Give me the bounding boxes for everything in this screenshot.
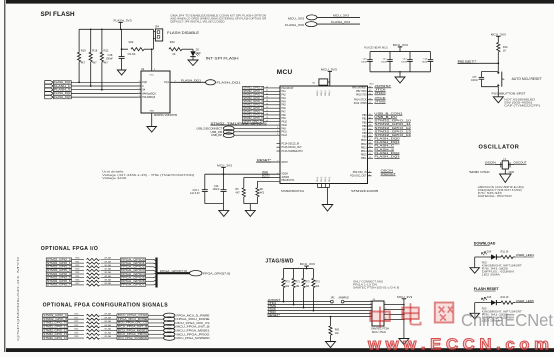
- input connector FLASH_DQ3: [45, 95, 72, 99]
- wires J3 right pins: [384, 303, 405, 320]
- off-page connector FLASH_DQ1: [206, 80, 242, 85]
- svg-text:M25P40-VMN6TPB: M25P40-VMN6TPB: [154, 114, 177, 117]
- off-page power connector MCU_3V3: [288, 14, 360, 21]
- note text (unit details): [102, 170, 194, 180]
- off-page connector USB_DP: [211, 133, 288, 138]
- svg-text:STM32_GPIO_12: STM32_GPIO_12: [43, 328, 67, 332]
- ground (boot network): [245, 210, 255, 216]
- svg-text:P/N: 941-1828: P/N: 941-1828: [482, 269, 509, 271]
- note text (oscillator): [478, 186, 524, 198]
- capacitor C15 1uF: [190, 174, 208, 203]
- resistor R20: [169, 40, 193, 56]
- jumper JP1 ARMPUD: [331, 297, 350, 304]
- watermark chinese character wang: [435, 303, 454, 323]
- connector J3 MCU JTAG: [370, 299, 389, 334]
- svg-text:MCU_3V3: MCU_3V3: [397, 295, 412, 299]
- svg-text:PB6: PB6: [362, 126, 367, 128]
- net label MCU_FPGA_INIT_B: [117, 325, 148, 329]
- svg-text:PA4: PA4: [282, 100, 287, 103]
- net label STM32_GPIO_8 (cfg row): [43, 317, 68, 321]
- svg-text:VSS_3: VSS_3: [325, 177, 327, 182]
- svg-text:RED: RED: [482, 263, 487, 265]
- wire bypass top rail: [370, 51, 431, 53]
- MCU right pin PB2 /TDO net JTDI: [356, 88, 386, 94]
- svg-text:FPGA_GPIO0: FPGA_GPIO0: [121, 257, 145, 261]
- svg-text:FPGA_GPIO5: FPGA_GPIO5: [121, 275, 145, 279]
- svg-text:1: 1: [370, 300, 371, 302]
- resistor R71 10k: [292, 269, 301, 306]
- svg-text:3: 3: [370, 303, 371, 305]
- svg-text:STM32_GPIO_3: STM32_GPIO_3: [47, 268, 71, 272]
- MCU right pin PA15 /TDI net JTDO: [356, 91, 387, 97]
- svg-text:PA13 /JTMS: PA13 /JTMS: [354, 102, 367, 105]
- svg-text:LED 20MA: LED 20MA: [482, 274, 501, 277]
- svg-text:PB2-BOOT1: PB2-BOOT1: [282, 180, 296, 182]
- net label FPGA_MCU_DONE: [117, 317, 148, 321]
- svg-text:VSS_2: VSS_2: [321, 177, 323, 182]
- input connector FLASH_DQ2: [45, 91, 72, 95]
- wire + ground (FLASH RESET): [474, 303, 476, 314]
- wire: R22 branch: [121, 48, 128, 50]
- svg-text:VDD_2: VDD_2: [321, 90, 323, 96]
- net label OSCIN (crystal): [485, 161, 496, 165]
- svg-text:PA10: PA10: [282, 121, 288, 124]
- resistor R23 0R NA: [68, 324, 117, 328]
- net label RESET* (button): [458, 60, 500, 65]
- net label STM32_GPIO_7 (fpga row): [46, 283, 71, 287]
- net label STM32_GPIO_3 (fpga row): [46, 268, 71, 272]
- wire BOOT0: [244, 175, 280, 178]
- wire FLASH_DQ3 to U2 pin: [71, 96, 138, 98]
- MCU right pin PB14 net FLASH_S: [361, 147, 394, 153]
- svg-text:OSCOUT: OSCOUT: [514, 161, 527, 165]
- label INT SPI FLASH: [206, 56, 239, 61]
- svg-text:FPGA_MCU_D_PWRE: FPGA_MCU_D_PWRE: [177, 313, 210, 317]
- wire cfg row 1: [148, 318, 164, 320]
- svg-text:PB2 /TDO: PB2 /TDO: [356, 91, 367, 93]
- svg-text:MCU_FPGA_CFG0: MCU_FPGA_CFG0: [118, 313, 148, 317]
- net label FPGA_GPIO1: [120, 261, 145, 265]
- wire U2 VCC to jumper node: [151, 48, 153, 71]
- svg-text:R19: R19: [81, 48, 86, 52]
- wire FLASH_C to U2 pin: [71, 85, 138, 87]
- svg-text:Voltage 4440: Voltage 4440: [102, 177, 127, 180]
- net label STM32_GPIO_0: [242, 86, 293, 90]
- svg-text:JTDO: JTDO: [374, 91, 386, 95]
- off-page connector MCU_FPGA_SUSPEND: [164, 336, 210, 341]
- svg-text:PB5: PB5: [362, 122, 367, 124]
- svg-text:INT SPI FLASH: INT SPI FLASH: [206, 56, 239, 61]
- svg-text:100nF: 100nF: [213, 188, 220, 191]
- resistor R11: [496, 250, 516, 258]
- net label STM32_GPIO_14 (cfg row): [43, 336, 68, 340]
- net label STM32_GPIO_6: [242, 106, 286, 110]
- svg-text:FPGA_GPIO7: FPGA_GPIO7: [121, 283, 145, 287]
- svg-text:PB0: PB0: [362, 115, 367, 117]
- off-page connector MCU_FPGA_CRC_CS: [164, 321, 210, 326]
- resistor R35 0R NA: [72, 275, 121, 279]
- svg-text:SMD OSC: SMD OSC: [469, 170, 491, 174]
- label PLACE NEAR MCU: [364, 45, 388, 49]
- svg-text:100nF: 100nF: [381, 61, 388, 63]
- svg-text:MCU_FPGA_M0SE1: MCU_FPGA_M0SE1: [118, 328, 148, 332]
- net label STM32_GPIO_5: [242, 103, 286, 107]
- MCU VDD pin texts: [317, 90, 331, 96]
- power flag MCU_3V3 (VDDA filter): [217, 163, 232, 174]
- note text (FLASH RESET): [482, 308, 523, 322]
- svg-text:PA2: PA2: [282, 94, 287, 97]
- capacitor C5 100nF (reset): [471, 72, 498, 87]
- svg-text:MCU_FPGA_SUSPEND: MCU_FPGA_SUSPEND: [118, 336, 147, 340]
- svg-text:STM32_GPIO_14: STM32_GPIO_14: [43, 336, 67, 340]
- resistor R5 (BOOT pulldown): [236, 178, 246, 204]
- wire fpga row 0 to bus: [146, 260, 157, 261]
- capacitor C18: [106, 29, 125, 70]
- svg-text:NOT ASSEMBLED: NOT ASSEMBLED: [504, 99, 536, 102]
- svg-text:PA8: PA8: [282, 114, 287, 117]
- svg-text:PA6: PA6: [282, 107, 287, 110]
- note text (JTAG): [353, 281, 400, 289]
- off-page connector MCU_FPGA_M0SE1: [164, 328, 211, 333]
- off-page connector FPGA_MCU_DONE: [164, 317, 210, 322]
- svg-text:STM32_GPIO_5: STM32_GPIO_5: [47, 275, 71, 279]
- resistor R70 10k: [282, 269, 291, 303]
- svg-text:P/N: 545-945: P/N: 545-945: [478, 193, 503, 195]
- svg-text:DOWNLOAD: DOWNLOAD: [474, 241, 496, 245]
- svg-text:FLASH_DQ3: FLASH_DQ3: [54, 95, 71, 99]
- svg-text:PA12: PA12: [282, 134, 288, 137]
- svg-text:R70: R70: [285, 282, 290, 284]
- off-page power connector FLASH_3V3: [285, 20, 360, 27]
- section title FLASH RESET: [474, 287, 500, 291]
- svg-text:FLASH_DQ1: FLASH_DQ1: [217, 81, 242, 85]
- resistor R36 0R NA: [72, 278, 121, 282]
- svg-text:SAMTEC FTSH-105-01-L-D-K B: SAMTEC FTSH-105-01-L-D-K B: [353, 286, 400, 289]
- svg-text:R20: R20: [170, 40, 175, 44]
- net label RESET* (JTAG bus): [268, 313, 282, 317]
- wire reset node down: [497, 63, 499, 71]
- svg-text:SPI FLASH: SPI FLASH: [41, 11, 76, 18]
- net label STM32_GPIO_7: [242, 109, 286, 113]
- MCU right pin PB13 net FLASH_C: [361, 144, 394, 150]
- MCU analog/boot pins: [277, 173, 295, 182]
- svg-text:PB11: PB11: [361, 158, 367, 160]
- ground (MCU VSS): [322, 205, 333, 212]
- wire JNTRST: [268, 301, 373, 303]
- svg-text:SW (505-4056): SW (505-4056): [504, 103, 532, 105]
- capacitor C16 100nF: [213, 174, 227, 203]
- resistor R12: [496, 296, 516, 304]
- svg-text:USER_LED5: USER_LED5: [516, 299, 534, 303]
- svg-text:MCU_3V3: MCU_3V3: [393, 43, 408, 47]
- svg-text:FLASH_DQ3: FLASH_DQ3: [374, 154, 400, 158]
- net label FPGA_GPIO3: [120, 268, 145, 272]
- watermark ChinaECNet: [461, 310, 553, 330]
- MCU pin PC13-TAMPER-RTC: [277, 150, 304, 153]
- section title OPTIONAL FPGA I/O: [41, 246, 98, 252]
- section title OPTIONAL FPGA CONFIGURATION SIGNALS: [43, 303, 169, 309]
- svg-text:R10: R10: [503, 46, 508, 49]
- MCU pin PC14-OSC32_IN: [277, 143, 300, 145]
- svg-text:R12 1K: R12 1K: [501, 296, 509, 299]
- wire FLASH_S to U2 pin: [71, 89, 138, 91]
- svg-text:MCU: MCU: [277, 69, 293, 76]
- svg-text:100nF: 100nF: [361, 61, 368, 63]
- wire fpga row 6 to bus: [146, 280, 157, 281]
- svg-text:VSS_4: VSS_4: [329, 177, 331, 182]
- resistor R10 10K: [497, 42, 508, 63]
- svg-text:DQ0: DQ0: [142, 82, 147, 84]
- net label JTMS (JTAG bus): [268, 304, 277, 308]
- svg-text:AUTO MCU RESET: AUTO MCU RESET: [512, 77, 542, 81]
- svg-text:W#/Vpp/DQ2: W#/Vpp/DQ2: [142, 93, 156, 95]
- svg-text:MCU_3V3: MCU_3V3: [217, 163, 232, 167]
- wire U2 VSS down: [151, 113, 153, 127]
- wire fpga row 3 to bus: [146, 270, 157, 271]
- wire cfg row 5: [148, 333, 164, 335]
- note text (DOWNLOAD): [482, 263, 523, 277]
- svg-text:100nF: 100nF: [401, 61, 408, 63]
- label SMD OSC: [469, 170, 514, 174]
- svg-text:MCU_FPGA_PROG: MCU_FPGA_PROG: [118, 332, 147, 336]
- input connector FLASH_S: [45, 88, 72, 92]
- svg-text:JTAG/SWD: JTAG/SWD: [265, 258, 294, 264]
- LED D14: [475, 250, 501, 259]
- wire cfg row 0: [148, 314, 164, 316]
- svg-text:STM32_TIM1/PWM_GPIO_9: STM32_TIM1/PWM_GPIO_9: [211, 121, 268, 125]
- svg-text:MCU_FPGA_CRC_CS: MCU_FPGA_CRC_CS: [177, 321, 210, 325]
- wire RESET*: [268, 316, 373, 318]
- net label STM32_GPIO_11 (cfg row): [43, 325, 68, 329]
- wire fpga row 7 to bus: [146, 284, 157, 285]
- svg-text:STM32F/BOOT011: STM32F/BOOT011: [281, 189, 304, 193]
- net label STM32_GPIO_3: [242, 96, 286, 100]
- wire + ground (DOWNLOAD): [474, 257, 476, 268]
- wire JTCK: [268, 310, 373, 312]
- resistor R72 10k: [302, 269, 311, 309]
- svg-text:Voltage (447-4456-1-45) - THE: Voltage (447-4456-1-45) - THE (TIAETIONA…: [102, 174, 194, 177]
- svg-text:OSCOUT: OSCOUT: [381, 172, 396, 176]
- svg-text:D14: D14: [487, 250, 492, 253]
- resistor R21 0R NA: [68, 316, 117, 320]
- svg-text:PC15-OSC32_OUT: PC15-OSC32_OUT: [282, 147, 303, 149]
- svg-text:R11 1K: R11 1K: [501, 250, 509, 253]
- MCU right pin PB7 net STM32_GPIO_12: [362, 126, 411, 132]
- svg-text:OSCILLATOR: OSCILLATOR: [479, 145, 520, 151]
- MCU right pin PD1-OSC_OUT net OSCOUT: [350, 172, 396, 178]
- net label STM32_GPIO_12 (cfg row): [43, 328, 68, 332]
- svg-text:STM32_GPIO_8: STM32_GPIO_8: [43, 317, 67, 321]
- svg-text:FPGA_MCU_DONE: FPGA_MCU_DONE: [177, 317, 210, 321]
- svg-text:ONLY CONNECT JWS: ONLY CONNECT JWS: [353, 281, 384, 283]
- svg-text:GND: GND: [509, 171, 515, 174]
- svg-text:VDDA: VDDA: [282, 173, 289, 176]
- svg-text:KINGBRIGHT, WP7104SRT: KINGBRIGHT, WP7104SRT: [482, 266, 523, 268]
- svg-text:5: 5: [370, 306, 371, 308]
- svg-text:JP4: JP4: [155, 26, 160, 29]
- wire JTDI: [268, 304, 373, 306]
- svg-text:CAP (TYME22CFP): CAP (TYME22CFP): [504, 105, 540, 108]
- svg-text:FLASH_3V3: FLASH_3V3: [331, 20, 350, 24]
- ground (R60): [326, 342, 336, 348]
- svg-text:PUSHBUTTON-SPST: PUSHBUTTON-SPST: [492, 91, 526, 95]
- resistor R30 0R NA: [72, 257, 121, 261]
- resistor R6b (pulldown): [256, 181, 280, 203]
- net label OSCOUT (crystal): [514, 161, 527, 165]
- LED D2 (INT SPI FLASH): [190, 49, 200, 60]
- wire + ground (boot resistors): [244, 204, 258, 211]
- svg-text:USER_LED4: USER_LED4: [516, 253, 534, 257]
- off-page connector MCU_FPGA_INIT_B: [164, 324, 210, 329]
- svg-text:MCU_FPGA_INIT_B: MCU_FPGA_INIT_B: [118, 325, 148, 329]
- svg-text:PA15 /TDI: PA15 /TDI: [356, 94, 367, 97]
- resistor R26 0R NA: [68, 335, 117, 339]
- svg-text:PB1: PB1: [362, 119, 367, 121]
- svg-text:PC14-OSC32_IN: PC14-OSC32_IN: [282, 143, 300, 145]
- svg-text:MCU_3V3: MCU_3V3: [333, 14, 349, 18]
- net label FPGA_GPIO4: [120, 272, 145, 276]
- svg-text:PA3: PA3: [282, 97, 287, 100]
- wire + ground (bypass bank): [399, 71, 401, 77]
- svg-text:FLASH_DQ1: FLASH_DQ1: [181, 79, 202, 83]
- svg-text:STM32_GPIO_6: STM32_GPIO_6: [47, 279, 71, 283]
- net label JTDI (JTAG bus): [268, 301, 277, 305]
- MCU right pin PA14 /JTCK net JTCK: [354, 96, 386, 102]
- capacitor C12 100nF (bypass): [401, 52, 413, 72]
- net label STM32_GPIO_9: [242, 116, 286, 120]
- wire FLASH_DQ2 to U2 pin: [71, 92, 138, 94]
- svg-text:100nF: 100nF: [471, 79, 478, 82]
- MCU right pin PB8 net STM32_GPIO_13: [362, 129, 411, 135]
- off-page connector MCU_FPGA_PROG: [164, 332, 210, 337]
- svg-text:STM32_GPIO_2: STM32_GPIO_2: [47, 265, 71, 269]
- svg-text:JP1: JP1: [331, 297, 336, 300]
- svg-text:PA5: PA5: [282, 104, 287, 107]
- svg-text:STM32_GPIO_0: STM32_GPIO_0: [47, 257, 71, 261]
- net label FPGA_GPIO6: [120, 279, 145, 283]
- svg-text:FLASH RESET: FLASH RESET: [474, 287, 500, 291]
- svg-text:0K: 0K: [173, 53, 176, 56]
- svg-text:2: 2: [385, 308, 386, 310]
- net label STM32_GPIO_8: [242, 113, 286, 117]
- svg-text:Unit details:: Unit details:: [102, 170, 125, 173]
- svg-text:4k7: 4k7: [81, 61, 86, 65]
- MCU right pin PB12 net FLASH_DQ1: [361, 140, 400, 146]
- svg-text:PA9 /JNTRST: PA9 /JNTRST: [352, 87, 367, 90]
- MCU right pin PB15 net FLASH_DQ2: [361, 151, 400, 157]
- wire + ground (VDDA caps): [205, 204, 224, 211]
- svg-text:FPGA_GPIO1: FPGA_GPIO1: [121, 261, 145, 265]
- wire cfg row 2: [148, 322, 164, 324]
- svg-text:VDD_4: VDD_4: [329, 90, 331, 96]
- MCU right pin PB5 net STM32_GPIO_10: [362, 119, 411, 125]
- net label STM32_GPIO_5 (fpga row): [46, 275, 71, 279]
- svg-text:FLASH DISABLE: FLASH DISABLE: [167, 30, 199, 35]
- wire cfg row 6: [148, 337, 164, 339]
- svg-text:FLASH_3V6: FLASH_3V6: [285, 23, 304, 27]
- power flag MCU_3V3 (J3): [397, 295, 412, 339]
- svg-text:ChinaECNet: ChinaECNet: [461, 310, 553, 330]
- resistor R20 0R NA: [68, 313, 117, 317]
- svg-text:ARMPUD: ARMPUD: [339, 297, 350, 300]
- MCU right pin PB9 net STM32_GPIO_14: [362, 133, 411, 139]
- wire fpga row 2 to bus: [146, 267, 157, 268]
- svg-text:4k7: 4k7: [104, 61, 109, 65]
- net label MCU_FPGA_M0SE1: [117, 328, 148, 332]
- svg-text:R18: R18: [92, 48, 97, 52]
- section title SPI FLASH: [41, 11, 76, 18]
- capacitor C11 100nF (bypass): [381, 52, 393, 72]
- svg-text:PA9: PA9: [282, 117, 287, 120]
- ground (U2): [147, 127, 157, 133]
- svg-text:PLACE NEAR MCU: PLACE NEAR MCU: [364, 45, 388, 49]
- svg-text:FREQUENCY (545-5157 8 MHZ): FREQUENCY (545-5157 8 MHZ): [478, 190, 522, 192]
- watermark www.ECCN.com: [367, 337, 549, 354]
- crystal Y1: [496, 158, 515, 169]
- svg-text:4k7: 4k7: [92, 61, 97, 65]
- resistor R18: [89, 29, 98, 64]
- svg-text:OPTIONAL FPGA I/O: OPTIONAL FPGA I/O: [41, 246, 98, 252]
- svg-text:4K2: 4K2: [260, 191, 265, 194]
- wire fpga row 5 to bus: [146, 276, 157, 277]
- svg-text:FPGA_GPIO3: FPGA_GPIO3: [121, 268, 145, 272]
- ground (crystal): [500, 174, 512, 183]
- svg-text:MCU_FPGA_M0SE1: MCU_FPGA_M0SE1: [177, 328, 211, 332]
- svg-text:PA0-WKUP: PA0-WKUP: [282, 87, 294, 90]
- svg-text:GND: GND: [369, 84, 374, 86]
- off-page connector USB_DM: [211, 129, 288, 134]
- MCU right pin PA9 /JNTRST net JNTRST: [352, 84, 391, 90]
- svg-text:MCU_FPGA_INIT_B: MCU_FPGA_INIT_B: [177, 325, 210, 329]
- section title DOWNLOAD: [474, 241, 496, 245]
- svg-text:PD0-OSC_IN: PD0-OSC_IN: [353, 172, 367, 174]
- svg-text:PC13-TAMPER-RTC: PC13-TAMPER-RTC: [282, 150, 304, 153]
- MCU right pin PB11 net FLASH_DQ3: [361, 154, 400, 160]
- svg-text:PB10: PB10: [361, 140, 367, 142]
- resistor R73 10k: [312, 269, 321, 312]
- svg-text:1uF 6.3V: 1uF 6.3V: [190, 192, 200, 195]
- input connector FLASH_DQ0: [45, 80, 72, 84]
- svg-text:AVDD0: AVDD0: [282, 176, 290, 179]
- resistor R19: [78, 29, 87, 64]
- jumper JP4: [153, 26, 162, 50]
- section title MCU: [277, 69, 293, 76]
- svg-text:NRST: NRST: [282, 162, 289, 164]
- ground (C18): [117, 70, 126, 75]
- svg-text:R60: R60: [335, 329, 340, 331]
- net label STM32_GPIO_1 (fpga row): [46, 261, 71, 265]
- ground (J3): [399, 339, 409, 345]
- wire: pull-up top rail: [79, 29, 153, 31]
- svg-text:PB12: PB12: [361, 144, 367, 146]
- net label STM32_TIM1/PWM_GPIO_9: [211, 121, 288, 127]
- off-page connector USB_DISCONNECT: [196, 126, 286, 131]
- svg-text:2: 2: [385, 303, 386, 305]
- wire cfg row 4: [148, 329, 164, 331]
- net label JTDO (JTAG bus): [268, 310, 277, 314]
- svg-text:R72: R72: [306, 282, 311, 284]
- note text block (JP4 usage note): [170, 14, 266, 23]
- net label FPGA_GPIO0: [120, 257, 145, 261]
- svg-text:USB_DP: USB_DP: [211, 133, 222, 137]
- wire cfg row 3: [148, 326, 164, 328]
- svg-text:MCU_3V3: MCU_3V3: [491, 32, 506, 36]
- svg-text:FPGA_MCU_DONE: FPGA_MCU_DONE: [118, 317, 148, 321]
- net label MCU_FPGA_SUSPEND: [117, 336, 148, 340]
- MCU right pin PB0 net USB_B_CON1: [362, 111, 403, 117]
- svg-text:OSCIN: OSCIN: [485, 161, 496, 165]
- svg-text:R73: R73: [315, 282, 320, 284]
